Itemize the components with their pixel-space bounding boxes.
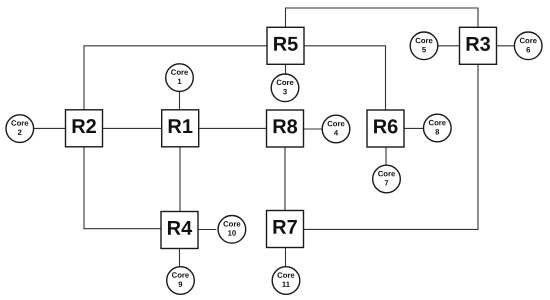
svg-text:R8: R8 bbox=[272, 116, 298, 138]
svg-text:Core: Core bbox=[429, 118, 447, 127]
svg-text:Core: Core bbox=[11, 119, 29, 128]
svg-text:R7: R7 bbox=[272, 217, 298, 239]
svg-text:Core: Core bbox=[276, 78, 294, 87]
svg-text:R4: R4 bbox=[167, 218, 193, 240]
svg-text:Core: Core bbox=[223, 219, 241, 228]
svg-text:Core: Core bbox=[171, 68, 189, 77]
svg-text:Core: Core bbox=[277, 271, 295, 280]
svg-text:R2: R2 bbox=[71, 116, 97, 138]
svg-text:R5: R5 bbox=[273, 34, 299, 56]
svg-text:6: 6 bbox=[526, 45, 530, 54]
svg-text:11: 11 bbox=[282, 280, 291, 289]
svg-text:R1: R1 bbox=[167, 116, 193, 138]
svg-text:Core: Core bbox=[327, 119, 345, 128]
svg-text:2: 2 bbox=[18, 128, 22, 137]
svg-text:9: 9 bbox=[178, 280, 182, 289]
svg-text:8: 8 bbox=[435, 127, 440, 136]
svg-text:4: 4 bbox=[334, 128, 339, 137]
svg-text:Core: Core bbox=[415, 36, 433, 45]
svg-text:1: 1 bbox=[177, 77, 182, 86]
svg-text:5: 5 bbox=[422, 45, 427, 54]
svg-text:Core: Core bbox=[172, 271, 190, 280]
svg-text:3: 3 bbox=[283, 87, 287, 96]
svg-text:R6: R6 bbox=[373, 116, 399, 138]
svg-text:10: 10 bbox=[228, 229, 237, 238]
svg-text:R3: R3 bbox=[465, 34, 491, 56]
svg-text:Core: Core bbox=[519, 36, 537, 45]
svg-text:Core: Core bbox=[378, 169, 396, 178]
svg-text:7: 7 bbox=[384, 178, 388, 187]
